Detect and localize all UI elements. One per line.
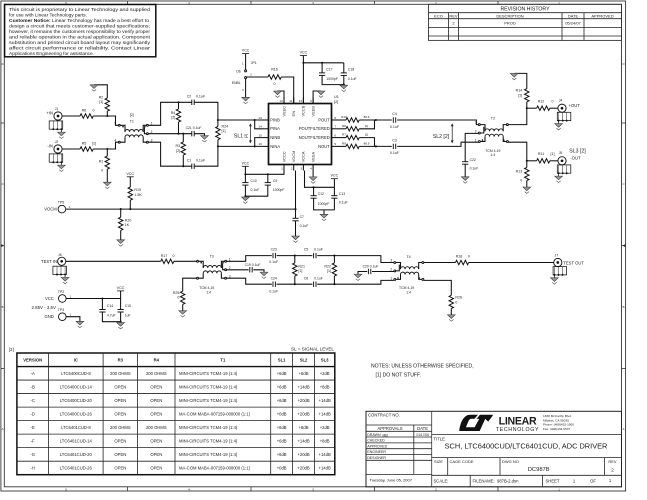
svg-text:C20 0.1uF: C20 0.1uF [363,264,379,268]
svg-text:R19: R19 [134,188,141,192]
svg-text:VCCC: VCCC [281,151,286,162]
svg-text:+8dB: +8dB [299,371,309,376]
svg-text:R20: R20 [125,218,132,222]
svg-text:OPEN: OPEN [150,452,162,457]
svg-text:+2dB: +2dB [320,371,330,376]
svg-text:C14: C14 [107,304,113,308]
svg-text:LTC6400CUD-20: LTC6400CUD-20 [60,398,93,403]
svg-text:3: 3 [475,121,477,125]
svg-text:VCC: VCC [300,51,308,55]
svg-text:R22: R22 [324,264,331,268]
svg-text:[1]: [1] [222,129,226,133]
svg-text:PINA: PINA [270,126,280,131]
svg-text:[2]: [2] [334,99,338,104]
svg-text:VEEC: VEEC [281,106,286,117]
svg-text:R8: R8 [342,124,346,128]
svg-text:R25: R25 [173,291,180,295]
svg-text:+2dB: +2dB [320,425,330,430]
svg-text:+8dB: +8dB [299,425,309,430]
svg-text:+6dB: +6dB [277,452,287,457]
svg-text:J4: J4 [559,98,563,102]
svg-text:2: 2 [390,268,392,272]
svg-text:4: 4 [114,138,116,142]
svg-text:CAGE CODE: CAGE CODE [450,459,474,464]
svg-text:POUT: POUT [318,117,330,122]
svg-text:+14dB: +14dB [297,438,309,443]
svg-text:C24: C24 [271,277,277,281]
svg-text:+8dB: +8dB [320,438,330,443]
svg-text:OPEN: OPEN [114,466,126,471]
svg-text:Tuesday, June 05, 2007: Tuesday, June 05, 2007 [370,478,413,483]
svg-text:1: 1 [475,138,477,142]
svg-text:NOTES: UNLESS OTHERWISE SPECIF: NOTES: UNLESS OTHERWISE SPECIFIED, [371,363,474,369]
svg-text:TP2: TP2 [58,290,65,294]
svg-text:+14dB: +14dB [319,466,331,471]
svg-text:MEI: MEI [383,433,389,437]
svg-text:-D: -D [30,411,34,416]
svg-text:VCC: VCC [331,174,339,178]
svg-text:NINA: NINA [270,144,280,149]
svg-text:OPEN: OPEN [150,438,162,443]
svg-text:200 OHMS: 200 OHMS [146,371,167,376]
svg-text:R4: R4 [171,111,176,115]
svg-text:-A: -A [31,371,35,376]
svg-text:J7: J7 [555,253,559,257]
svg-text:C19 0.1uF: C19 0.1uF [245,263,261,267]
svg-text:VCC: VCC [127,172,135,176]
svg-text:3: 3 [390,259,392,263]
svg-text:R13: R13 [516,169,523,173]
svg-text:SL2: SL2 [300,357,308,362]
svg-text:-OUT: -OUT [570,156,581,161]
svg-text:0: 0 [468,254,470,258]
svg-text:12: 12 [279,99,283,103]
svg-text:APPROVED: APPROVED [367,445,387,449]
svg-text:86.6: 86.6 [364,141,370,145]
svg-text:R24: R24 [222,124,229,128]
svg-text:LTC6401CUD-20: LTC6401CUD-20 [60,452,93,457]
svg-text:05/24/07: 05/24/07 [565,21,581,26]
svg-text:PINB: PINB [270,117,280,122]
svg-text:C: C [622,182,624,186]
svg-text:[2]: [2] [244,134,248,138]
svg-text:200 OHMS: 200 OHMS [110,371,131,376]
svg-text:OPEN: OPEN [114,384,126,389]
svg-text:-H: -H [30,466,34,471]
svg-text:2.85V - 3.5V: 2.85V - 3.5V [32,305,56,310]
svg-text:[1]: [1] [365,124,369,128]
svg-text:[1]: [1] [365,133,369,137]
svg-text:LTC6401CUD-26: LTC6401CUD-26 [60,466,93,471]
svg-text:OPEN: OPEN [150,384,162,389]
svg-text:987B-2.dsn: 987B-2.dsn [497,479,519,484]
svg-text:86.6: 86.6 [364,115,370,119]
svg-text:T3: T3 [210,254,214,258]
svg-text:Fax: (408)434-0507: Fax: (408)434-0507 [543,427,570,431]
svg-text:+6dB: +6dB [277,438,287,443]
svg-text:LTC6401CUD-14: LTC6401CUD-14 [60,438,93,443]
svg-text:VCC: VCC [242,161,250,165]
svg-text:CHECKED: CHECKED [367,439,385,443]
svg-text:SIZE: SIZE [434,459,443,464]
svg-text:OPEN: OPEN [150,466,162,471]
svg-text:J5: J5 [559,151,563,155]
svg-text:9: 9 [310,99,312,103]
svg-text:C18: C18 [348,67,354,71]
svg-text:SL = SIGNAL LEVEL: SL = SIGNAL LEVEL [291,347,334,352]
svg-text:+20dB: +20dB [297,466,309,471]
svg-text:MINI-CIRCUITS TCM4-19 (1:4): MINI-CIRCUITS TCM4-19 (1:4) [179,398,238,403]
svg-text:T4: T4 [406,255,410,259]
svg-text:VEEA: VEEA [310,152,315,163]
svg-text:TCM 4-19: TCM 4-19 [199,286,214,290]
svg-text:VERSION: VERSION [23,357,42,362]
svg-text:0.1uF: 0.1uF [348,77,357,81]
svg-text:SL1: SL1 [278,357,286,362]
svg-text:1000pF: 1000pF [318,202,330,206]
svg-text:IC: IC [74,357,78,362]
svg-text:T1: T1 [130,120,134,124]
svg-text:NOUTFILTERED: NOUTFILTERED [299,135,330,140]
svg-text:SL3 [2]: SL3 [2] [569,149,586,155]
svg-text:R17: R17 [161,254,168,258]
svg-text:EN: EN [291,111,296,117]
svg-text:13: 13 [258,116,262,120]
svg-text:and reliable operation in the: and reliable operation in the actual app… [9,35,151,41]
svg-text:R12: R12 [538,99,545,103]
svg-text:DC987B: DC987B [528,467,550,473]
svg-text:SL2 [2]: SL2 [2] [433,134,450,140]
svg-text:[1]: [1] [92,141,96,145]
svg-text:+14dB: +14dB [319,398,331,403]
svg-text:0: 0 [274,82,276,86]
svg-text:DATE: DATE [568,13,579,18]
svg-text:TP3: TP3 [58,308,65,312]
svg-text:Applications Engineering for a: Applications Engineering for assistance. [9,51,94,57]
svg-text:B: B [623,305,625,309]
svg-text:OPEN: OPEN [150,411,162,416]
svg-text:J6: J6 [58,253,62,257]
svg-text:DWG NO: DWG NO [502,459,519,464]
svg-text:FILENAME:: FILENAME: [473,479,495,484]
svg-text:200 OHMS: 200 OHMS [146,425,167,430]
svg-text:+0dB: +0dB [277,411,287,416]
svg-text:LTC6400CUD-8: LTC6400CUD-8 [61,371,91,376]
svg-text:1K: 1K [125,223,130,227]
svg-text:design a circuit that meets cu: design a circuit that meets customer-sup… [9,23,150,29]
svg-text:4: 4 [310,167,312,171]
svg-text:T1: T1 [220,357,226,362]
svg-text:0.1uF: 0.1uF [269,289,278,293]
svg-text:0.1uF: 0.1uF [196,95,206,99]
svg-text:LTC6401CUD-8: LTC6401CUD-8 [61,425,91,430]
svg-text:[2]: [2] [9,347,14,352]
svg-text:ECO: ECO [434,13,443,18]
svg-text:C22: C22 [470,158,476,162]
svg-text:REV: REV [449,13,458,18]
svg-text:MA-COM MABA-007159-000000 (: MA-COM MABA-007159-000000 (1:1) [179,466,251,471]
svg-text:D6: D6 [236,69,240,73]
svg-text:APPROVALS: APPROVALS [377,426,402,431]
svg-text:0.1uF: 0.1uF [390,151,400,155]
svg-text:-C: -C [30,398,34,403]
svg-text:OPEN: OPEN [150,398,162,403]
svg-text:[1] DO NOT STUFF.: [1] DO NOT STUFF. [376,373,421,379]
svg-text:14: 14 [258,125,262,129]
svg-text:VOCM: VOCM [291,151,296,163]
svg-text:0: 0 [455,300,457,304]
svg-text:[2]: [2] [130,113,134,117]
svg-text:DATE: DATE [417,426,428,431]
svg-text:R1: R1 [99,159,104,163]
svg-text:C21 0.1uF: C21 0.1uF [186,126,202,130]
svg-text:1000pF: 1000pF [273,188,285,192]
svg-text:+14dB: +14dB [297,384,309,389]
svg-text:R5: R5 [82,141,87,145]
svg-text:+OUT: +OUT [569,103,581,108]
svg-text:C2: C2 [187,95,192,99]
svg-text:2: 2 [611,468,614,473]
svg-text:[1]: [1] [298,269,302,273]
svg-text:C: C [2,182,4,186]
svg-text:LTC6400CUD-26: LTC6400CUD-26 [60,411,93,416]
svg-text:TCM 4-19: TCM 4-19 [485,149,500,153]
svg-text:R18: R18 [456,254,463,258]
svg-text:CONTRACT NO.: CONTRACT NO. [368,413,400,418]
svg-text:LTC6400CUD-14: LTC6400CUD-14 [60,384,93,389]
svg-text:+20dB: +20dB [297,398,309,403]
svg-text:[1]: [1] [99,100,103,104]
svg-text:01/17/06: 01/17/06 [417,433,430,437]
svg-text:R3: R3 [118,357,124,362]
svg-text:GND: GND [44,314,53,319]
svg-text:0.1uF: 0.1uF [470,167,479,171]
svg-text:however, it remains the custom: however, it remains the customers respon… [9,29,150,35]
svg-text:TITLE: TITLE [434,437,446,442]
svg-text:+0dB: +0dB [277,466,287,471]
svg-text:+6dB: +6dB [277,384,287,389]
svg-text:1:4: 1:4 [206,291,211,295]
svg-text:+14dB: +14dB [319,411,331,416]
svg-text:REVISION HISTORY: REVISION HISTORY [500,7,550,13]
svg-text:2: 2 [475,130,477,134]
svg-text:R16: R16 [271,68,278,72]
svg-text:[2]: [2] [176,149,180,153]
svg-text:affect circuit performance or: affect circuit performance or reliabilit… [9,46,150,52]
svg-text:+6dB: +6dB [277,398,287,403]
svg-text:+8dB: +8dB [320,384,330,389]
svg-text:NINB: NINB [270,135,280,140]
svg-text:MINI-CIRCUITS TCM4-19 (1:4): MINI-CIRCUITS TCM4-19 (1:4) [179,425,238,430]
svg-text:5: 5 [114,121,116,125]
svg-text:R10: R10 [341,115,347,119]
svg-text:REV: REV [608,459,617,464]
svg-text:C3: C3 [392,139,397,143]
svg-text:1000pF: 1000pF [326,77,338,81]
svg-text:DESIGNER: DESIGNER [367,456,386,460]
svg-text:0.1uF: 0.1uF [390,125,400,129]
svg-text:0.1uF: 0.1uF [269,260,278,264]
svg-text:0: 0 [177,296,179,300]
svg-text:VCC: VCC [45,296,54,301]
svg-text:JP1: JP1 [251,61,257,65]
svg-text:MINI-CIRCUITS TCM4-19 (1:4): MINI-CIRCUITS TCM4-19 (1:4) [179,438,238,443]
svg-text:TEST IN: TEST IN [41,259,57,264]
svg-text:-G: -G [30,452,35,457]
svg-text:0.1uF: 0.1uF [196,159,206,163]
svg-text:VCCB: VCCB [301,105,306,116]
svg-text:0: 0 [552,99,554,103]
svg-text:1: 1 [390,276,392,280]
svg-text:-B: -B [31,384,35,389]
svg-text:SL1: SL1 [234,134,243,140]
svg-text:VCC: VCC [242,49,250,53]
svg-text:for use with Linear Technology: for use with Linear Technology parts. [9,12,87,18]
svg-text:VCCA: VCCA [301,151,306,162]
svg-text:VOCM: VOCM [44,207,57,212]
svg-text:R3: R3 [175,144,180,148]
svg-text:+IN: +IN [46,110,53,115]
svg-text:MA-COM MABA-007159-000000 (: MA-COM MABA-007159-000000 (1:1) [179,411,251,416]
svg-text:0.1uF: 0.1uF [314,277,323,281]
svg-text:0.1uF: 0.1uF [314,248,323,252]
svg-text:16: 16 [258,142,262,146]
svg-text:[2]: [2] [171,116,175,120]
svg-text:C6: C6 [304,277,308,281]
svg-text:+14dB: +14dB [319,452,331,457]
svg-text:[1]: [1] [551,152,555,156]
svg-text:11: 11 [289,99,292,103]
svg-text:R14: R14 [516,89,523,93]
svg-text:5: 5 [334,142,336,146]
svg-text:6: 6 [334,133,336,137]
svg-text:Customer Notice: Linear Techno: Customer Notice: Linear Technology has m… [9,18,149,24]
svg-text:J2: J2 [55,140,59,144]
svg-text:OPEN: OPEN [114,438,126,443]
svg-text:TEST OUT: TEST OUT [563,261,584,266]
svg-text:1:4: 1:4 [491,153,496,157]
svg-text:VEEB: VEEB [310,106,315,117]
svg-text:MINI-CIRCUITS TCM4-19 (1:4): MINI-CIRCUITS TCM4-19 (1:4) [179,384,238,389]
svg-text:TP5: TP5 [58,201,65,205]
svg-text:APPROVED: APPROVED [591,13,613,18]
svg-text:0.1uF: 0.1uF [251,188,260,192]
svg-text:1: 1 [281,167,283,171]
svg-text:2: 2 [291,167,293,171]
svg-text:[1]: [1] [327,269,331,273]
svg-text:B: B [2,305,4,309]
svg-text:SCH, LTC6400CUD/LTC6401CUD, AD: SCH, LTC6400CUD/LTC6401CUD, ADC DRIVER [445,442,608,451]
svg-text:C12: C12 [318,192,324,196]
svg-text:R7: R7 [342,133,346,137]
svg-text:C10: C10 [251,179,257,183]
svg-text:1.5K: 1.5K [134,193,142,197]
svg-text:T2: T2 [491,117,495,121]
svg-text:A: A [623,427,625,431]
svg-text:SL3: SL3 [321,357,329,362]
svg-text:DRAWN: DRAWN [367,433,381,437]
svg-text:C23: C23 [271,248,277,252]
svg-text:C1: C1 [187,159,192,163]
svg-text:SCALE:: SCALE: [434,479,449,484]
svg-text:R2: R2 [99,95,104,99]
svg-text:0.1uF: 0.1uF [300,224,309,228]
svg-text:-E: -E [31,425,35,430]
svg-text:TCM 4-19: TCM 4-19 [399,286,414,290]
svg-text:C5: C5 [304,248,308,252]
svg-text:4.7uF: 4.7uF [107,314,116,318]
svg-text:J1: J1 [55,107,59,111]
svg-text:R4: R4 [154,357,160,362]
svg-text:LINEAR: LINEAR [499,415,537,427]
svg-text:ENGINEER: ENGINEER [367,450,386,454]
svg-text:+20dB: +20dB [297,411,309,416]
svg-text:C4: C4 [392,112,397,116]
svg-text:0: 0 [93,108,95,112]
svg-text:ENBL: ENBL [232,81,241,85]
svg-text:0: 0 [101,169,103,173]
svg-text:MINI-CIRCUITS TCM4-19 (1:4): MINI-CIRCUITS TCM4-19 (1:4) [179,452,238,457]
svg-text:This circuit is proprietary to: This circuit is proprietary to Linear Te… [9,7,150,13]
svg-text:OPEN: OPEN [114,452,126,457]
svg-text:A: A [2,427,4,431]
svg-text:TECHNOLOGY: TECHNOLOGY [496,427,539,433]
svg-text:POUTFILTERED: POUTFILTERED [299,126,330,131]
svg-text:+20dB: +20dB [297,452,309,457]
svg-text:R11: R11 [538,152,544,156]
svg-text:+6dB: +6dB [277,425,287,430]
svg-text:OF: OF [590,479,596,484]
svg-text:NOUT: NOUT [318,144,330,149]
svg-text:10: 10 [299,99,303,103]
svg-text:OPEN: OPEN [114,411,126,416]
svg-text:C13: C13 [339,192,345,196]
svg-text:R9: R9 [342,141,346,145]
svg-text:R21: R21 [298,264,305,268]
svg-text:1:4: 1:4 [406,291,411,295]
svg-text:R6: R6 [82,108,87,112]
svg-text:C9: C9 [273,179,277,183]
svg-text:substitution and printed circu: substitution and printed circuit board l… [9,40,151,46]
svg-text:D: D [622,62,624,66]
svg-text:D: D [2,62,4,66]
svg-text:[1]: [1] [518,93,522,97]
svg-text:0.1uF: 0.1uF [339,200,348,204]
svg-text:200 OHMS: 200 OHMS [110,425,131,430]
svg-text:-F: -F [31,438,35,443]
svg-text:+6dB: +6dB [277,371,287,376]
svg-text:C17: C17 [326,67,332,71]
svg-text:15: 15 [258,133,262,137]
svg-text:C7: C7 [300,215,304,219]
svg-text:VCC: VCC [117,286,125,290]
svg-text:8: 8 [334,116,336,120]
svg-text:-IN: -IN [47,143,53,148]
svg-text:0: 0 [520,179,522,183]
svg-text:DESCRIPTION: DESCRIPTION [496,13,523,18]
svg-text:1uF: 1uF [125,314,131,318]
svg-text:OPEN: OPEN [114,398,126,403]
svg-text:MINI-CIRCUITS TCM4-19 (1:4): MINI-CIRCUITS TCM4-19 (1:4) [179,371,238,376]
svg-text:PROD: PROD [504,21,516,26]
svg-text:3: 3 [300,167,302,171]
svg-text:0: 0 [173,254,175,258]
svg-text:R26: R26 [455,296,462,300]
svg-text:SHEET: SHEET [546,479,560,484]
svg-text:C15: C15 [125,304,131,308]
svg-text:7: 7 [334,125,336,129]
